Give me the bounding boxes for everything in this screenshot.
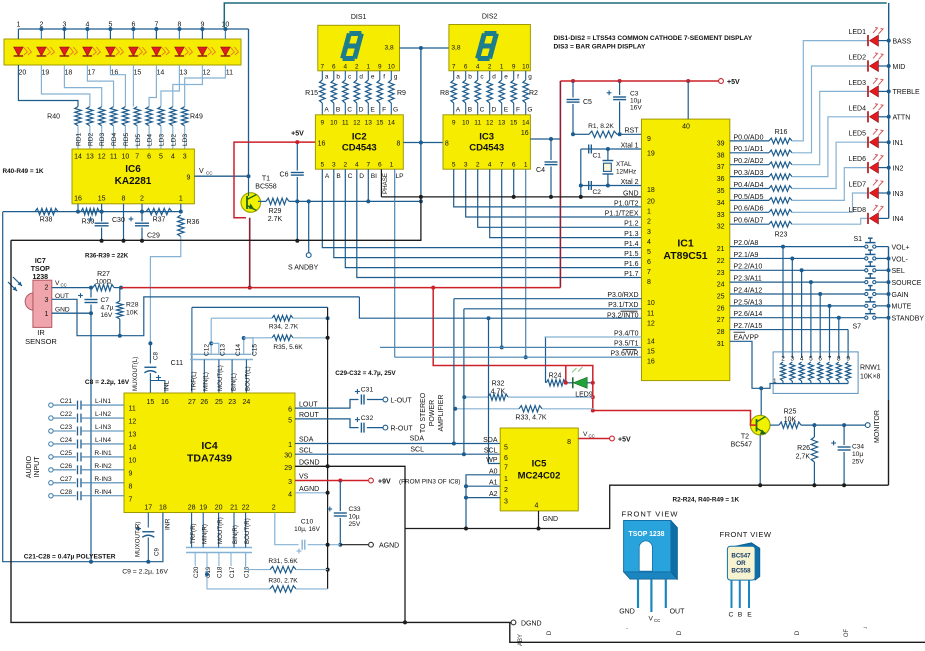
svg-text:24: 24 <box>717 282 725 289</box>
svg-text:BOUT(R): BOUT(R) <box>244 518 251 544</box>
svg-text:1: 1 <box>16 22 20 29</box>
svg-text:CD4543: CD4543 <box>469 143 504 154</box>
svg-text:INL: INL <box>164 380 171 391</box>
svg-text:C14: C14 <box>235 344 242 356</box>
svg-text:ABY: ABY <box>518 634 524 646</box>
svg-text:MUXOUT(L): MUXOUT(L) <box>132 357 139 391</box>
resistors R40-R49 <box>75 107 81 126</box>
audio input C21 <box>49 403 53 407</box>
svg-text:10µ: 10µ <box>349 514 360 521</box>
wire T2 collector <box>760 388 762 415</box>
LED bar segment 5 <box>106 47 116 56</box>
wire T2 emitter to ground line <box>759 435 761 485</box>
svg-text:3: 3 <box>332 162 336 169</box>
svg-text:27: 27 <box>717 317 725 324</box>
svg-text:34: 34 <box>717 200 725 207</box>
svg-text:12: 12 <box>486 120 494 127</box>
svg-text:RNW1: RNW1 <box>860 365 881 372</box>
svg-text:16: 16 <box>111 70 119 77</box>
wire LED4 cathode <box>879 116 889 118</box>
svg-text:1: 1 <box>500 64 504 71</box>
svg-text:9: 9 <box>129 470 133 477</box>
7-segment display DIS1 <box>318 25 400 71</box>
svg-text:R-OUT: R-OUT <box>391 425 414 432</box>
svg-text:LED6: LED6 <box>848 156 866 163</box>
svg-text:10µ, 16V: 10µ, 16V <box>294 526 320 533</box>
svg-text:5: 5 <box>809 356 813 363</box>
svg-text:10: 10 <box>129 457 137 464</box>
wire IC6 bottom pins <box>77 204 79 212</box>
svg-text:P0.4/AD4: P0.4/AD4 <box>734 182 764 189</box>
IC2 CD4543 <box>315 115 403 169</box>
svg-text:S1: S1 <box>853 236 862 243</box>
switch S4 SOURCE <box>865 281 868 284</box>
svg-text:16: 16 <box>161 399 169 406</box>
svg-text:BC547: BC547 <box>731 442 753 449</box>
wire P2.7 row <box>730 329 848 331</box>
wire LED8 cathode <box>879 217 889 219</box>
wire xtal caps to GND <box>581 148 586 150</box>
svg-text:15: 15 <box>134 70 142 77</box>
svg-text:C27: C27 <box>60 476 72 483</box>
svg-text:D: D <box>492 107 497 114</box>
svg-text:LOUT: LOUT <box>299 401 318 408</box>
svg-text:7: 7 <box>504 465 508 472</box>
svg-text:Xtal 2: Xtal 2 <box>621 179 639 186</box>
R-OUT terminal <box>383 425 388 430</box>
svg-text:DIS2: DIS2 <box>482 14 498 21</box>
svg-text:TDA7439: TDA7439 <box>187 453 232 465</box>
svg-text:C9 = 2.2µ, 16V: C9 = 2.2µ, 16V <box>122 569 168 576</box>
capacitor C3 <box>619 81 621 95</box>
svg-text:7: 7 <box>647 269 651 276</box>
capacitor C1 <box>588 145 590 154</box>
svg-text:A: A <box>325 173 330 180</box>
svg-text:ROUT: ROUT <box>299 412 320 419</box>
svg-text:19: 19 <box>42 70 50 77</box>
svg-text:7: 7 <box>129 496 133 503</box>
wire IC6 pin9 to T1 node <box>194 175 248 177</box>
svg-text:C26: C26 <box>60 463 72 470</box>
svg-text:3,8: 3,8 <box>385 45 394 52</box>
svg-text:11: 11 <box>129 406 136 413</box>
bar graph display DIS3 <box>4 39 241 65</box>
svg-text:16: 16 <box>318 141 326 148</box>
svg-text:5: 5 <box>504 445 508 452</box>
svg-text:GND: GND <box>623 190 639 197</box>
svg-text:5: 5 <box>452 162 456 169</box>
LED LED2 <box>867 60 869 71</box>
svg-text:R32: R32 <box>492 381 505 388</box>
resistor R30 2.7K <box>207 566 270 589</box>
TSOP legs <box>637 579 639 608</box>
svg-text:LED7: LED7 <box>848 182 866 189</box>
svg-text:R40: R40 <box>47 114 60 121</box>
resistors R8-R2 segment resistors DIS2 <box>451 80 457 103</box>
svg-text:10: 10 <box>462 120 470 127</box>
svg-text:38: 38 <box>717 152 725 159</box>
svg-text:C22: C22 <box>60 411 72 418</box>
wire SCL row <box>295 453 500 455</box>
svg-text:3: 3 <box>183 154 187 161</box>
wire P2.5 row <box>730 305 866 307</box>
svg-text:C1: C1 <box>593 153 602 160</box>
svg-text:IC1: IC1 <box>677 238 694 250</box>
svg-text:C28: C28 <box>60 489 72 496</box>
svg-text:LD4: LD4 <box>147 134 154 146</box>
svg-text:39: 39 <box>717 140 725 147</box>
svg-text:5: 5 <box>320 162 324 169</box>
audio input C27 <box>49 481 53 485</box>
svg-text:7: 7 <box>828 356 832 363</box>
svg-text:C19: C19 <box>205 566 212 578</box>
LED LED3 <box>867 86 869 97</box>
svg-text:11: 11 <box>647 310 654 317</box>
svg-text:P2.0/A8: P2.0/A8 <box>734 240 759 247</box>
svg-text:19: 19 <box>199 505 207 512</box>
svg-text:e: e <box>371 73 375 80</box>
wire C33 to AGND terminal <box>340 544 368 546</box>
svg-text:3: 3 <box>45 297 49 304</box>
wire right switch rail <box>888 247 890 400</box>
svg-text:RD5: RD5 <box>123 132 130 146</box>
switch S3 SEL <box>865 269 868 272</box>
svg-text:P1.4: P1.4 <box>624 241 639 248</box>
svg-text:F: F <box>382 107 386 114</box>
svg-text:14: 14 <box>157 70 165 77</box>
wire P3.5/T1 row <box>380 346 642 348</box>
svg-text:C33: C33 <box>349 506 361 513</box>
svg-text:19: 19 <box>647 151 655 158</box>
svg-text:R34, 2.7K: R34, 2.7K <box>269 324 299 331</box>
resistor R32 4.7K <box>464 396 488 398</box>
svg-text:4: 4 <box>647 239 651 246</box>
svg-text:17: 17 <box>88 70 96 77</box>
wire ground line right <box>539 485 889 528</box>
resistor R38 <box>35 208 58 214</box>
IC7 TSOP1238 IR sensor <box>33 280 52 327</box>
svg-text:E: E <box>747 612 752 619</box>
svg-text:D: D <box>359 173 364 180</box>
svg-text:R1, 8.2K: R1, 8.2K <box>588 123 614 130</box>
svg-text:GND: GND <box>543 516 559 523</box>
LED bar segment 10 <box>221 47 231 56</box>
svg-text:9: 9 <box>647 136 651 143</box>
audio input C22 <box>49 416 53 420</box>
svg-text:CC: CC <box>61 282 67 287</box>
svg-text:6: 6 <box>288 407 292 414</box>
svg-text:4.7K: 4.7K <box>491 389 506 396</box>
wire DGND row black <box>295 466 405 622</box>
svg-text:P2.1/A9: P2.1/A9 <box>734 252 759 259</box>
audio input C25 <box>49 455 53 459</box>
svg-text:P1.7: P1.7 <box>624 271 639 278</box>
7-segment display DIS2 <box>449 25 531 71</box>
wire bar graph anode rail <box>18 28 248 30</box>
svg-text:FRONT VIEW: FRONT VIEW <box>622 510 679 519</box>
svg-text:P0.6/AD7: P0.6/AD7 <box>734 218 764 225</box>
svg-text:7: 7 <box>321 64 325 71</box>
svg-text:14: 14 <box>647 339 655 346</box>
svg-text:DGND: DGND <box>299 460 320 467</box>
capacitor C29 <box>141 212 143 222</box>
svg-text:IN4: IN4 <box>893 216 904 223</box>
svg-text:37: 37 <box>717 164 725 171</box>
svg-text:R24: R24 <box>549 373 562 380</box>
svg-text:g: g <box>528 73 532 80</box>
transistor T2 BC547 <box>750 415 770 435</box>
svg-text:C29: C29 <box>147 233 160 240</box>
svg-text:RD4: RD4 <box>111 132 118 146</box>
svg-text:C30: C30 <box>112 217 125 224</box>
svg-text:6: 6 <box>464 64 468 71</box>
LED bar segment 6 <box>129 47 139 56</box>
wire TRF feedback row <box>192 306 328 308</box>
IC3 CD4543 <box>443 115 530 169</box>
capacitor C9 <box>147 513 149 528</box>
svg-text:8: 8 <box>397 141 401 148</box>
svg-text:D: D <box>359 107 364 114</box>
svg-text:33: 33 <box>717 212 725 219</box>
wire TSOP OUT to INT0 <box>52 297 360 336</box>
capacitor C5 <box>572 81 574 98</box>
IC6 KA2281 <box>72 149 194 204</box>
svg-text:C: C <box>729 612 734 619</box>
svg-text:1: 1 <box>504 476 508 483</box>
svg-text:RD3: RD3 <box>99 132 106 146</box>
svg-text:BASS: BASS <box>893 38 912 45</box>
svg-text:MID: MID <box>893 64 906 71</box>
svg-text:R36-R39 = 22K: R36-R39 = 22K <box>85 253 129 260</box>
svg-text:L-OUT: L-OUT <box>391 397 413 404</box>
svg-text:B: B <box>336 107 341 114</box>
svg-text:IC7: IC7 <box>35 258 46 265</box>
wire LED5 cathode <box>879 141 889 143</box>
resistors R16-R23 <box>730 140 769 142</box>
svg-text:R33, 4.7K: R33, 4.7K <box>515 415 546 422</box>
svg-text:8: 8 <box>445 141 449 148</box>
svg-text:1: 1 <box>288 442 292 449</box>
svg-text:SDA: SDA <box>299 437 314 444</box>
svg-text:f: f <box>383 73 385 80</box>
svg-text:8: 8 <box>647 279 651 286</box>
svg-text:P2.3/A11: P2.3/A11 <box>734 276 762 283</box>
svg-text:C7: C7 <box>101 297 110 304</box>
svg-text:BC547: BC547 <box>731 553 751 560</box>
svg-text:+5V: +5V <box>618 437 631 444</box>
svg-text:P0.5/AD5: P0.5/AD5 <box>734 194 764 201</box>
svg-text:23: 23 <box>228 399 236 406</box>
svg-text:DIS3 = BAR GRAPH DISPLAY: DIS3 = BAR GRAPH DISPLAY <box>554 44 647 51</box>
svg-text:25: 25 <box>215 399 223 406</box>
svg-text:SEL: SEL <box>892 268 905 275</box>
svg-text:9: 9 <box>320 120 324 127</box>
wire LOUT to C31 <box>295 400 359 409</box>
svg-text:C13: C13 <box>220 344 227 356</box>
wire bottom frame continuation <box>510 622 925 642</box>
svg-text:10: 10 <box>647 300 655 307</box>
capacitor C4 <box>550 139 552 160</box>
svg-text:13: 13 <box>365 120 373 127</box>
svg-text:D: D <box>794 630 801 635</box>
svg-text:10: 10 <box>330 120 338 127</box>
svg-text:8: 8 <box>122 196 126 203</box>
svg-text:R36: R36 <box>187 219 200 226</box>
wire maroon +5V feed <box>559 81 561 288</box>
svg-text:R16: R16 <box>775 129 788 136</box>
svg-text:C6: C6 <box>280 172 289 179</box>
svg-text:2: 2 <box>504 487 508 494</box>
svg-text:TSOP 1238: TSOP 1238 <box>629 531 665 538</box>
svg-text:G: G <box>393 107 398 114</box>
svg-text:C21-C28 = 0.47µ POLYESTER: C21-C28 = 0.47µ POLYESTER <box>24 554 116 561</box>
capacitor C30 <box>101 212 103 222</box>
svg-text:TO STEREO: TO STEREO <box>420 392 427 433</box>
L-OUT terminal <box>383 397 388 402</box>
svg-text:P2.6/A14: P2.6/A14 <box>734 311 763 318</box>
IR arrows <box>8 282 17 291</box>
wire LED7 cathode <box>879 192 889 194</box>
wire IC3 LP to P3.6 row <box>525 169 527 357</box>
svg-text:C: C <box>347 107 352 114</box>
svg-text:C17: C17 <box>229 566 236 578</box>
svg-text:IN3: IN3 <box>893 191 904 198</box>
AGND terminal <box>369 542 374 547</box>
wire P3.4/T0 row <box>545 336 642 338</box>
svg-text:4: 4 <box>488 162 492 169</box>
svg-text:MOUT(L): MOUT(L) <box>217 365 224 391</box>
svg-text:C31: C31 <box>361 387 374 394</box>
capacitor C33 <box>339 481 341 512</box>
LED bar segment 4 <box>83 47 93 56</box>
wire T1 base <box>248 176 250 196</box>
svg-text:LP: LP <box>395 173 404 180</box>
svg-text:R49: R49 <box>190 114 203 121</box>
wire WP vertical <box>489 318 501 463</box>
svg-text:22: 22 <box>717 258 725 265</box>
svg-text:SDA: SDA <box>483 437 498 444</box>
audio input C28 <box>49 494 53 498</box>
svg-text:10: 10 <box>122 154 130 161</box>
IC2 LP pin to P3.6 row <box>394 169 396 357</box>
standby test point <box>308 201 310 252</box>
LED LED1 <box>867 35 869 46</box>
svg-text:2: 2 <box>45 285 49 292</box>
resistor R24 <box>545 337 547 383</box>
svg-text:18: 18 <box>65 70 73 77</box>
wire P2.2 row <box>730 269 866 271</box>
svg-text:AGND: AGND <box>379 543 399 550</box>
svg-text:1: 1 <box>389 162 393 169</box>
svg-text:AUDIO: AUDIO <box>26 455 33 478</box>
wire feedback vertical black <box>327 307 329 589</box>
svg-text:35: 35 <box>717 188 725 195</box>
wire ground row under IC5 <box>405 528 539 530</box>
wire ROUT to C32 <box>295 419 359 428</box>
svg-text:FRONT VIEW: FRONT VIEW <box>720 530 772 539</box>
svg-text:S ANDBY: S ANDBY <box>288 265 319 272</box>
svg-text:R35, 5.6K: R35, 5.6K <box>273 344 303 351</box>
svg-text:22: 22 <box>242 505 250 512</box>
wire bottom resistor line <box>3 211 181 213</box>
svg-text:20: 20 <box>19 70 27 77</box>
svg-text:BIN(L): BIN(L) <box>230 373 237 391</box>
svg-text:31: 31 <box>717 341 725 348</box>
resistor R31 5.6K <box>246 553 270 570</box>
svg-text:V: V <box>583 431 588 438</box>
svg-text:+9V: +9V <box>378 479 391 486</box>
wire IC3 pin16 to +5V <box>530 138 560 140</box>
svg-text:4.7µ: 4.7µ <box>101 305 114 312</box>
svg-text:13: 13 <box>180 70 188 77</box>
capacitor C2 <box>588 181 590 190</box>
svg-text:C32: C32 <box>361 415 374 422</box>
svg-text:27: 27 <box>188 399 196 406</box>
svg-text:L-IN2: L-IN2 <box>95 411 111 418</box>
svg-text:LED3: LED3 <box>848 80 866 87</box>
svg-text:1: 1 <box>524 162 528 169</box>
svg-text:C8 = 2.2µ, 16V: C8 = 2.2µ, 16V <box>85 379 130 386</box>
IC5 MC24C02 <box>500 428 578 511</box>
svg-text:9: 9 <box>187 175 191 182</box>
capacitor C7 <box>90 288 92 298</box>
svg-text:AMPLIFIER: AMPLIFIER <box>438 395 445 432</box>
svg-text:XTAL: XTAL <box>616 161 632 168</box>
svg-text:MONITOR: MONITOR <box>874 410 881 443</box>
svg-text:17: 17 <box>144 505 152 512</box>
wire EA/VPP to RNW1 common <box>730 341 777 388</box>
svg-text:R-IN3: R-IN3 <box>94 476 112 483</box>
svg-text:25: 25 <box>717 294 725 301</box>
wire R36 to C8 node <box>150 237 180 344</box>
svg-text:IC5: IC5 <box>532 459 548 470</box>
svg-text:MIN(R): MIN(R) <box>201 524 208 544</box>
audio input C26 <box>49 468 53 472</box>
switch S5 GAIN <box>865 292 868 295</box>
svg-text:R-IN4: R-IN4 <box>94 489 112 496</box>
svg-text:6: 6 <box>378 162 382 169</box>
svg-text:23: 23 <box>717 270 725 277</box>
svg-text:IC4: IC4 <box>201 440 218 452</box>
svg-text:DIS1: DIS1 <box>351 14 367 21</box>
svg-text:C24: C24 <box>60 437 72 444</box>
wire P2.6 row <box>730 317 866 319</box>
svg-text:10µ: 10µ <box>630 98 641 105</box>
capacitor C14 <box>243 338 245 354</box>
svg-text:9: 9 <box>846 356 850 363</box>
svg-text:P3.1/TXD: P3.1/TXD <box>608 302 638 309</box>
LED LED4 <box>867 111 869 122</box>
svg-text:16V: 16V <box>630 105 642 112</box>
svg-text:BOUT(L): BOUT(L) <box>245 366 252 391</box>
capacitor C13 <box>211 343 219 354</box>
svg-text:(FROM PIN3 OF IC8): (FROM PIN3 OF IC8) <box>399 479 460 486</box>
wire T1 emitter to +5V rail maroon <box>249 218 251 288</box>
svg-text:b: b <box>336 73 340 80</box>
wire display common vertical <box>420 48 422 197</box>
svg-text:P1.5: P1.5 <box>624 251 639 258</box>
svg-text:C8: C8 <box>153 352 160 360</box>
svg-text:AT89C51: AT89C51 <box>663 250 707 262</box>
svg-text:P1.0/T2: P1.0/T2 <box>614 200 639 207</box>
svg-text:TRF(L): TRF(L) <box>191 371 198 391</box>
svg-text:14: 14 <box>388 120 396 127</box>
svg-text:C23: C23 <box>60 424 72 431</box>
svg-text:T2: T2 <box>741 434 749 441</box>
LED bar segment 9 <box>198 47 208 56</box>
svg-text:R9: R9 <box>397 90 406 97</box>
svg-text:LED1: LED1 <box>848 29 866 36</box>
